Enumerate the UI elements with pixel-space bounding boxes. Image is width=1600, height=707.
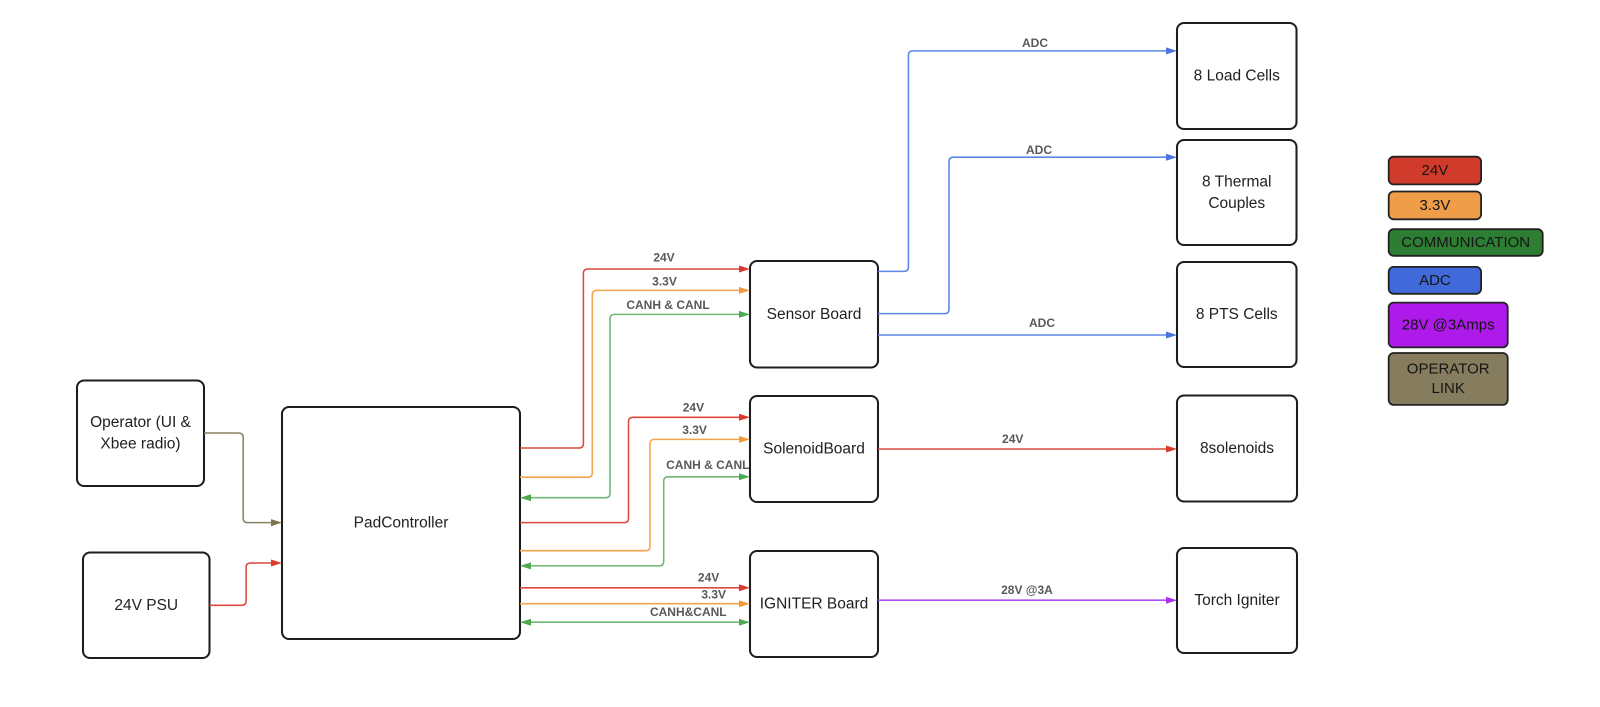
arrowhead (into PadController) xyxy=(520,619,531,626)
legend: 3.3V xyxy=(1389,192,1481,220)
wire: 28V @3A IGNITER Board->Torch Igniter xyxy=(878,583,1177,604)
arrowhead xyxy=(739,600,750,607)
svg-text:3.3V: 3.3V xyxy=(1419,197,1450,214)
wire: 24V PSU->PadController xyxy=(210,560,283,606)
arrowhead xyxy=(1166,332,1177,339)
wire: ADC Sensor Board->8 PTS Cells xyxy=(878,316,1177,339)
svg-text:24V: 24V xyxy=(683,401,704,415)
svg-text:24V: 24V xyxy=(1422,162,1449,179)
svg-text:28V @3A: 28V @3A xyxy=(1001,583,1053,597)
box: Sensor Board xyxy=(750,261,878,368)
svg-text:Sensor Board: Sensor Board xyxy=(767,306,862,323)
arrowhead (into PadController) xyxy=(520,562,531,569)
arrowhead xyxy=(739,414,750,421)
arrowhead xyxy=(739,619,750,626)
arrowhead xyxy=(739,287,750,294)
arrowhead xyxy=(739,473,750,480)
arrowhead xyxy=(739,266,750,273)
arrowhead xyxy=(271,560,282,567)
svg-text:COMMUNICATION: COMMUNICATION xyxy=(1401,234,1530,251)
wire: 3.3V PadController->IGNITER Board xyxy=(520,587,750,607)
wire: ADC Sensor Board->8 Load Cells xyxy=(878,36,1177,272)
arrowhead xyxy=(271,519,282,526)
svg-text:PadController: PadController xyxy=(354,515,449,532)
wire: 24V SolenoidBoard->8solenoids xyxy=(878,432,1177,452)
box: Operator (UI &amp; Xbee radio) xyxy=(77,381,204,487)
arrowhead (into PadController) xyxy=(520,494,531,501)
svg-text:3.3V: 3.3V xyxy=(682,423,707,437)
svg-text:8 Thermal: 8 Thermal xyxy=(1202,173,1272,190)
svg-text:IGNITER Board: IGNITER Board xyxy=(760,596,869,613)
legend: 28V @3Amps xyxy=(1389,303,1508,348)
svg-text:28V @3Amps: 28V @3Amps xyxy=(1402,317,1495,334)
box: SolenoidBoard xyxy=(750,396,878,502)
wire: CANH&amp;CANL PadController<->IGNITER Board xyxy=(520,605,750,626)
arrowhead xyxy=(1166,154,1177,161)
svg-text:OPERATOR: OPERATOR xyxy=(1407,361,1490,378)
svg-text:8solenoids: 8solenoids xyxy=(1200,440,1274,457)
svg-text:ADC: ADC xyxy=(1029,316,1055,330)
wire: CANH &amp; CANL PadController<->Sensor Board xyxy=(520,298,750,501)
svg-text:CANH & CANL: CANH & CANL xyxy=(626,298,709,312)
wire: 3.3V PadController->Sensor Board xyxy=(520,275,750,478)
svg-text:Operator (UI &: Operator (UI & xyxy=(90,414,191,431)
svg-text:24V: 24V xyxy=(653,251,674,265)
arrowhead xyxy=(1166,446,1177,453)
arrowhead xyxy=(739,311,750,318)
svg-text:24V: 24V xyxy=(698,570,719,584)
arrowhead xyxy=(739,584,750,591)
box: IGNITER Board xyxy=(750,551,878,657)
svg-text:Torch Igniter: Torch Igniter xyxy=(1194,592,1279,609)
arrowhead xyxy=(1166,47,1177,54)
arrowhead xyxy=(1166,597,1177,604)
svg-text:ADC: ADC xyxy=(1022,36,1048,50)
svg-text:Couples: Couples xyxy=(1208,195,1265,212)
svg-text:ADC: ADC xyxy=(1026,143,1052,157)
legend: ADC xyxy=(1389,267,1481,294)
svg-text:8 Load Cells: 8 Load Cells xyxy=(1194,68,1280,85)
box: 24V PSU xyxy=(83,553,210,659)
legend: COMMUNICATION xyxy=(1389,229,1543,256)
wire: 24V PadController->SolenoidBoard xyxy=(520,401,750,523)
box: PadController xyxy=(282,407,520,639)
svg-text:Xbee radio): Xbee radio) xyxy=(100,436,180,453)
svg-text:LINK: LINK xyxy=(1432,380,1465,397)
wire: 24V PadController->Sensor Board xyxy=(520,251,750,449)
wire: CANH &amp; CANL PadController<->SolenoidBoard xyxy=(520,458,750,570)
box: 8 Load Cells xyxy=(1177,23,1297,129)
svg-text:24V PSU: 24V PSU xyxy=(114,597,178,614)
box: 8solenoids xyxy=(1177,396,1297,502)
wire: 3.3V PadController->SolenoidBoard xyxy=(520,423,750,551)
svg-text:3.3V: 3.3V xyxy=(701,587,726,601)
svg-text:SolenoidBoard: SolenoidBoard xyxy=(763,441,865,458)
svg-text:CANH&CANL: CANH&CANL xyxy=(650,605,727,619)
box: 8 Thermal Couples xyxy=(1177,140,1297,245)
wire: ADC Sensor Board->8 Thermal Couples xyxy=(878,143,1177,314)
svg-text:ADC: ADC xyxy=(1419,272,1451,289)
svg-text:3.3V: 3.3V xyxy=(652,275,677,289)
box: 8 PTS Cells xyxy=(1177,262,1297,367)
svg-text:8 PTS Cells: 8 PTS Cells xyxy=(1196,306,1278,323)
arrowhead xyxy=(739,436,750,443)
wire: 24V PadController->IGNITER Board xyxy=(520,570,750,591)
svg-text:24V: 24V xyxy=(1002,432,1023,446)
legend: 24V xyxy=(1389,157,1481,185)
box: Torch Igniter xyxy=(1177,548,1297,653)
wire: OPERATOR LINK Operator->PadController xyxy=(204,433,282,526)
legend: OPERATOR LINK xyxy=(1389,353,1508,405)
svg-text:CANH & CANL: CANH & CANL xyxy=(666,458,749,472)
